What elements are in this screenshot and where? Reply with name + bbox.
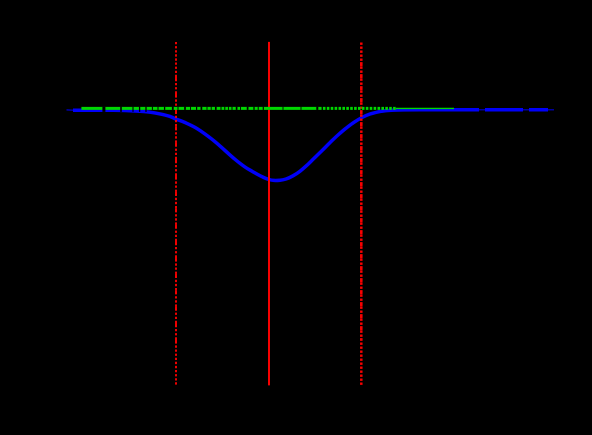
blue thick segment right B (529, 108, 548, 112)
red dotted vertical line right (egress) (360, 43, 363, 386)
blue model curve thin underlay (67, 110, 555, 181)
green baseline thick solid part (81, 107, 319, 110)
red solid vertical line (mid-transit) (268, 42, 270, 386)
red dotted left overlay (merged double dots) (175, 75, 177, 350)
green baseline thin extension (396, 107, 454, 109)
blue thick segment right A (485, 108, 523, 112)
green baseline thick dashed part (319, 107, 396, 110)
black data-point notches over green (102, 107, 105, 112)
red dotted right overlay (merged double dots) (360, 60, 363, 340)
blue model curve thick main segment (73, 110, 479, 181)
red dotted vertical line left (ingress) (175, 42, 177, 385)
